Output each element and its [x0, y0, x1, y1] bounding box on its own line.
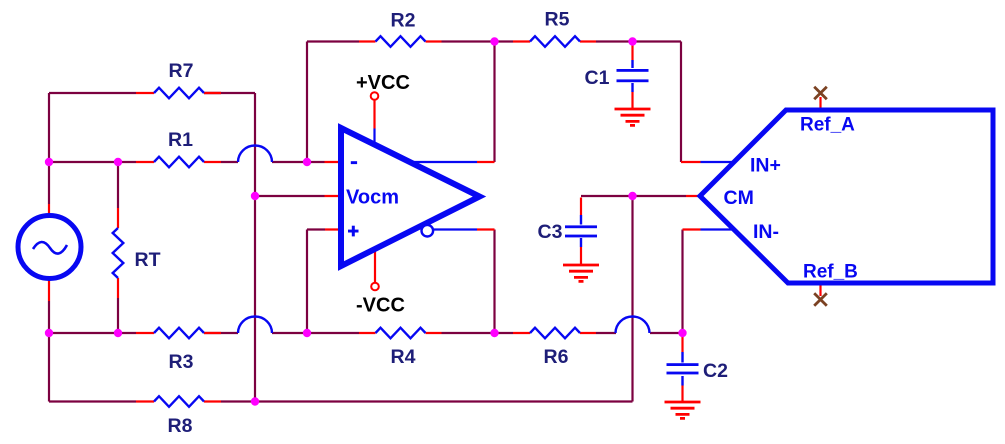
- svg-text:IN-: IN-: [753, 221, 779, 243]
- svg-text:R7: R7: [169, 60, 194, 82]
- svg-text:C2: C2: [703, 360, 728, 382]
- svg-text:RT: RT: [135, 249, 161, 271]
- svg-text:Ref_A: Ref_A: [800, 115, 855, 136]
- svg-text:C3: C3: [538, 221, 563, 243]
- svg-text:R5: R5: [545, 9, 570, 31]
- svg-text:R4: R4: [391, 346, 416, 368]
- svg-text:R2: R2: [391, 9, 416, 31]
- svg-text:R1: R1: [168, 129, 193, 151]
- svg-text:Vocm: Vocm: [346, 187, 399, 209]
- svg-text:C1: C1: [585, 67, 610, 89]
- svg-text:R8: R8: [168, 415, 193, 437]
- svg-text:+VCC: +VCC: [356, 72, 410, 94]
- svg-text:Ref_B: Ref_B: [803, 262, 858, 283]
- svg-text:CM: CM: [724, 187, 754, 209]
- svg-text:R3: R3: [169, 351, 194, 373]
- svg-text:-VCC: -VCC: [356, 295, 405, 317]
- svg-text:R6: R6: [544, 346, 569, 368]
- svg-text:IN+: IN+: [750, 155, 781, 177]
